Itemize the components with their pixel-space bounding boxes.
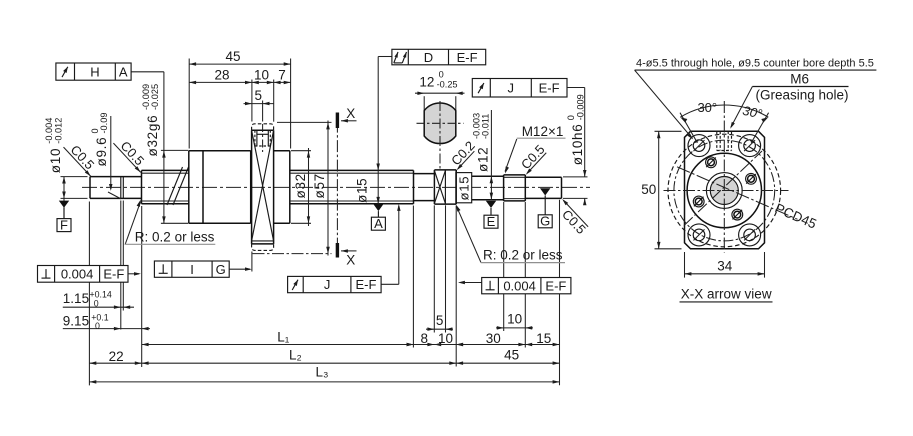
frame runout J E-F bottom bbox=[288, 276, 382, 292]
nut flange side view bbox=[251, 130, 253, 244]
svg-text:-0.012: -0.012 bbox=[53, 118, 63, 144]
shaft centerline bbox=[82, 186, 590, 188]
svg-text:E-F: E-F bbox=[356, 277, 377, 292]
svg-text:F: F bbox=[60, 217, 68, 232]
svg-text:ø12: ø12 bbox=[476, 147, 491, 172]
svg-text:I: I bbox=[190, 262, 194, 277]
svg-text:J: J bbox=[324, 277, 331, 292]
label phi15 screw bbox=[355, 178, 370, 203]
M6 tap hidden front bbox=[716, 131, 718, 150]
dim 30 bbox=[456, 344, 525, 346]
svg-text:E-F: E-F bbox=[457, 50, 478, 65]
pilot circle bbox=[706, 173, 742, 209]
leader J frame bottom bbox=[398, 206, 400, 284]
phi12 journal bbox=[456, 175, 503, 177]
label phi32g6 bbox=[141, 84, 160, 157]
dim 5 grease hole bbox=[244, 103, 274, 105]
diag centerline A bbox=[684, 151, 762, 226]
phi15 dim leader from D frame bbox=[378, 56, 392, 58]
leader left perp frame bbox=[128, 273, 139, 275]
svg-text:15: 15 bbox=[536, 331, 551, 346]
svg-text:-0.011: -0.011 bbox=[481, 114, 491, 139]
svg-text:A: A bbox=[119, 64, 128, 79]
svg-text:-0.25: -0.25 bbox=[437, 79, 458, 89]
svg-text:45: 45 bbox=[504, 347, 519, 362]
right side extensions bbox=[412, 206, 414, 348]
phi15 land with wrench-flat groove bbox=[433, 170, 435, 204]
thread break marks bbox=[167, 167, 183, 205]
dim 5 wrench flat bbox=[426, 328, 453, 330]
svg-text:ø32g6: ø32g6 bbox=[145, 115, 160, 157]
note R0.2 left bbox=[125, 202, 140, 245]
oval crosshair bbox=[417, 122, 464, 124]
label phi10 bbox=[44, 118, 63, 174]
screw shaft section bbox=[710, 177, 738, 205]
phi10 dim ticks bbox=[61, 176, 88, 178]
bolt holes with counterbore bbox=[688, 135, 710, 157]
svg-text:0.004: 0.004 bbox=[503, 278, 536, 293]
left screw section bbox=[142, 169, 189, 171]
label phi15 boxed bbox=[456, 173, 472, 203]
svg-text:34: 34 bbox=[717, 258, 733, 273]
svg-text:9.15: 9.15 bbox=[63, 314, 89, 329]
frame total-runout D E-F bbox=[392, 49, 486, 65]
greasing hole centerline bbox=[262, 124, 264, 152]
flange top dashed cap bbox=[252, 124, 274, 131]
view centerlines bbox=[723, 101, 725, 253]
dim 10 flange bbox=[252, 81, 274, 83]
svg-text:8: 8 bbox=[421, 331, 429, 346]
svg-text:E-F: E-F bbox=[539, 81, 560, 96]
svg-text:10: 10 bbox=[254, 67, 269, 82]
label C0.5 left1 bbox=[63, 137, 101, 176]
svg-text:10: 10 bbox=[438, 331, 453, 346]
X-X bottom arrow bbox=[341, 250, 357, 252]
svg-text:30°: 30° bbox=[697, 100, 717, 115]
datum F bbox=[59, 201, 69, 208]
dim L1 bbox=[142, 344, 414, 346]
label phi10h6 bbox=[566, 94, 585, 165]
svg-text:R: 0.2 or less: R: 0.2 or less bbox=[135, 229, 215, 244]
dim 10 land bbox=[413, 344, 456, 346]
phi32g6 ticks bbox=[161, 149, 188, 151]
nut body right part bbox=[274, 150, 290, 152]
frame runout H A bbox=[56, 63, 131, 80]
svg-text:-0.025: -0.025 bbox=[150, 84, 160, 110]
frame perp 0.004 E-F left bbox=[38, 266, 129, 283]
dim 45 right bbox=[456, 362, 559, 364]
phi32 dim line bbox=[308, 148, 310, 226]
phi12 dim line bbox=[490, 110, 492, 200]
leader right perp frame bbox=[460, 282, 482, 284]
phi32g6 dim line with H-A leader bbox=[131, 71, 164, 73]
svg-text:J: J bbox=[508, 81, 515, 96]
svg-text:+0.1: +0.1 bbox=[91, 312, 108, 322]
svg-text:E-F: E-F bbox=[103, 267, 124, 282]
svg-text:4-ø5.5 through hole, ø9.5 coun: 4-ø5.5 through hole, ø9.5 counter bore d… bbox=[636, 58, 874, 70]
dim L3 bbox=[89, 381, 559, 383]
M6 greasing hole side view bbox=[256, 130, 258, 146]
label phi32 bbox=[293, 173, 308, 198]
svg-text:R: 0.2 or less: R: 0.2 or less bbox=[483, 248, 563, 263]
right screw section bbox=[290, 169, 414, 171]
30deg radials bbox=[680, 113, 697, 143]
phi10h6 end journal bbox=[525, 176, 561, 178]
flange bottom dashed cap bbox=[252, 244, 274, 251]
svg-text:5: 5 bbox=[436, 313, 444, 328]
svg-text:-0.009: -0.009 bbox=[575, 94, 585, 120]
dim 15 bbox=[525, 344, 559, 346]
PCD45 leader line bbox=[677, 167, 798, 220]
datum E bbox=[486, 201, 496, 208]
svg-text:28: 28 bbox=[214, 67, 229, 82]
svg-text:12: 12 bbox=[419, 75, 434, 90]
svg-text:L₂: L₂ bbox=[289, 348, 302, 363]
datum G bbox=[540, 188, 550, 195]
grease hole dim ext bbox=[262, 101, 264, 122]
svg-text:10: 10 bbox=[507, 312, 522, 327]
svg-text:-0.09: -0.09 bbox=[99, 113, 109, 134]
svg-text:G: G bbox=[216, 262, 226, 277]
flange cross mark bbox=[252, 130, 274, 241]
svg-text:50: 50 bbox=[641, 182, 656, 197]
dim 10 thread length bbox=[496, 327, 533, 329]
groove leader diagonal bbox=[108, 192, 121, 199]
nut body left part bbox=[188, 151, 190, 224]
frame perp 0.004 E-F right bbox=[482, 278, 571, 294]
label C0.5 M12 bbox=[517, 142, 548, 174]
svg-text:A: A bbox=[374, 216, 383, 231]
dim 34 bbox=[684, 252, 686, 278]
svg-text:0: 0 bbox=[95, 321, 100, 331]
nut dim extensions bbox=[188, 59, 190, 149]
dim 45 top bbox=[189, 63, 290, 65]
svg-text:H: H bbox=[90, 64, 99, 79]
dim 7 bbox=[274, 81, 291, 83]
svg-text:X: X bbox=[346, 253, 355, 268]
svg-text:22: 22 bbox=[109, 349, 124, 364]
svg-text:G: G bbox=[540, 214, 550, 229]
extension lines left bbox=[88, 202, 90, 386]
label phi12 bbox=[471, 113, 490, 172]
step to screw bbox=[141, 170, 143, 203]
svg-text:(Greasing hole): (Greasing hole) bbox=[756, 88, 849, 103]
svg-text:ø32: ø32 bbox=[293, 173, 308, 198]
flange circle dashed bbox=[668, 134, 781, 247]
X-X cutting line bbox=[336, 121, 338, 254]
M12x1 thread section bbox=[503, 175, 505, 201]
svg-text:ø57: ø57 bbox=[312, 173, 327, 198]
svg-text:E: E bbox=[487, 214, 496, 229]
30deg arc bbox=[680, 105, 768, 117]
svg-text:ø15: ø15 bbox=[457, 176, 472, 201]
svg-text:45: 45 bbox=[225, 49, 240, 64]
svg-text:M12×1: M12×1 bbox=[522, 124, 564, 139]
phi10h6 ticks bbox=[563, 176, 588, 178]
datum A bbox=[373, 204, 383, 211]
phi10h6 dim line with J frame leader bbox=[567, 87, 585, 89]
dim 50 bbox=[655, 130, 682, 132]
svg-text:5: 5 bbox=[255, 88, 263, 103]
flange mounting screws small bbox=[706, 157, 717, 168]
flange face ext below bbox=[251, 252, 253, 272]
dim 22 bbox=[89, 362, 141, 364]
svg-text:ø10: ø10 bbox=[48, 148, 63, 173]
svg-text:E-F: E-F bbox=[545, 278, 566, 293]
leader I-G frame bbox=[229, 268, 250, 270]
note R0.2 right bbox=[457, 206, 481, 262]
label C0.2 bbox=[447, 138, 477, 169]
label C0.5 left2 bbox=[113, 133, 151, 172]
section oval with flats bbox=[424, 103, 456, 144]
svg-text:ø10h6: ø10h6 bbox=[570, 124, 585, 166]
svg-text:1.15: 1.15 bbox=[63, 291, 89, 306]
nut body circle bbox=[687, 153, 761, 227]
phi57 dim line bbox=[327, 121, 329, 256]
left journal phi10 bbox=[89, 177, 91, 199]
relief section bbox=[414, 173, 435, 175]
svg-text:X: X bbox=[346, 106, 355, 121]
svg-text:0: 0 bbox=[439, 70, 444, 80]
retaining ring groove bbox=[120, 177, 122, 199]
svg-text:7: 7 bbox=[278, 67, 286, 82]
dim L2 bbox=[142, 362, 457, 364]
phi9.6 leader bbox=[110, 116, 112, 189]
flange view rect bbox=[685, 131, 765, 249]
X-X top arrow bbox=[341, 120, 357, 122]
svg-text:L₃: L₃ bbox=[315, 365, 328, 380]
svg-text:0.004: 0.004 bbox=[61, 267, 94, 282]
svg-text:D: D bbox=[424, 50, 433, 65]
svg-text:ø15: ø15 bbox=[355, 178, 370, 203]
label C0.5 end bbox=[553, 200, 589, 237]
frame perp I G bbox=[154, 261, 229, 277]
bolt circle PCD45 bbox=[674, 140, 775, 241]
phi57 top ext bbox=[277, 121, 332, 123]
phi32 right ticks bbox=[291, 150, 311, 152]
svg-text:L₁: L₁ bbox=[277, 329, 290, 344]
svg-text:X-X arrow view: X-X arrow view bbox=[681, 286, 772, 301]
dim 28 bbox=[189, 81, 252, 83]
label phi9.6 bbox=[90, 113, 109, 167]
svg-text:M6: M6 bbox=[790, 72, 809, 87]
frame runout J E-F top bbox=[472, 79, 567, 98]
svg-text:30: 30 bbox=[486, 331, 501, 346]
label phi57 bbox=[312, 173, 327, 198]
phi57 bottom dashdot ext bbox=[253, 253, 332, 255]
phi10 dim line with datum F bbox=[63, 177, 65, 219]
